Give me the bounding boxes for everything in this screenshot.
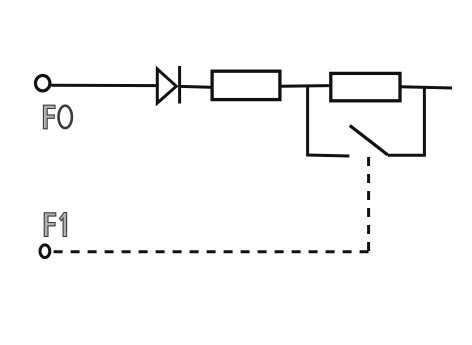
dashed actuator link from S1 to F1 (vertical) — [367, 157, 370, 253]
label F0 — [43, 105, 71, 129]
wire W2 (diode to R1) — [180, 85, 211, 89]
wire W3 (R1 to R2, junction node A) — [281, 84, 329, 88]
label F1 — [44, 213, 66, 237]
terminal F0 — [36, 76, 50, 91]
switch S1 blade (open) — [350, 126, 388, 155]
wire W1 (F0 to diode anode) — [51, 84, 157, 87]
resistor R2 — [331, 73, 400, 100]
switch S1 left leg from node A — [308, 86, 350, 157]
resistor R1 — [212, 71, 280, 99]
diode D1 — [157, 66, 179, 104]
switch S1 right leg to node B — [388, 88, 425, 155]
wire W4 (R2 to output, junction node B) — [401, 87, 452, 88]
terminal F1 — [40, 245, 50, 258]
dashed actuator link from S1 to F1 (horizontal) — [53, 250, 369, 253]
